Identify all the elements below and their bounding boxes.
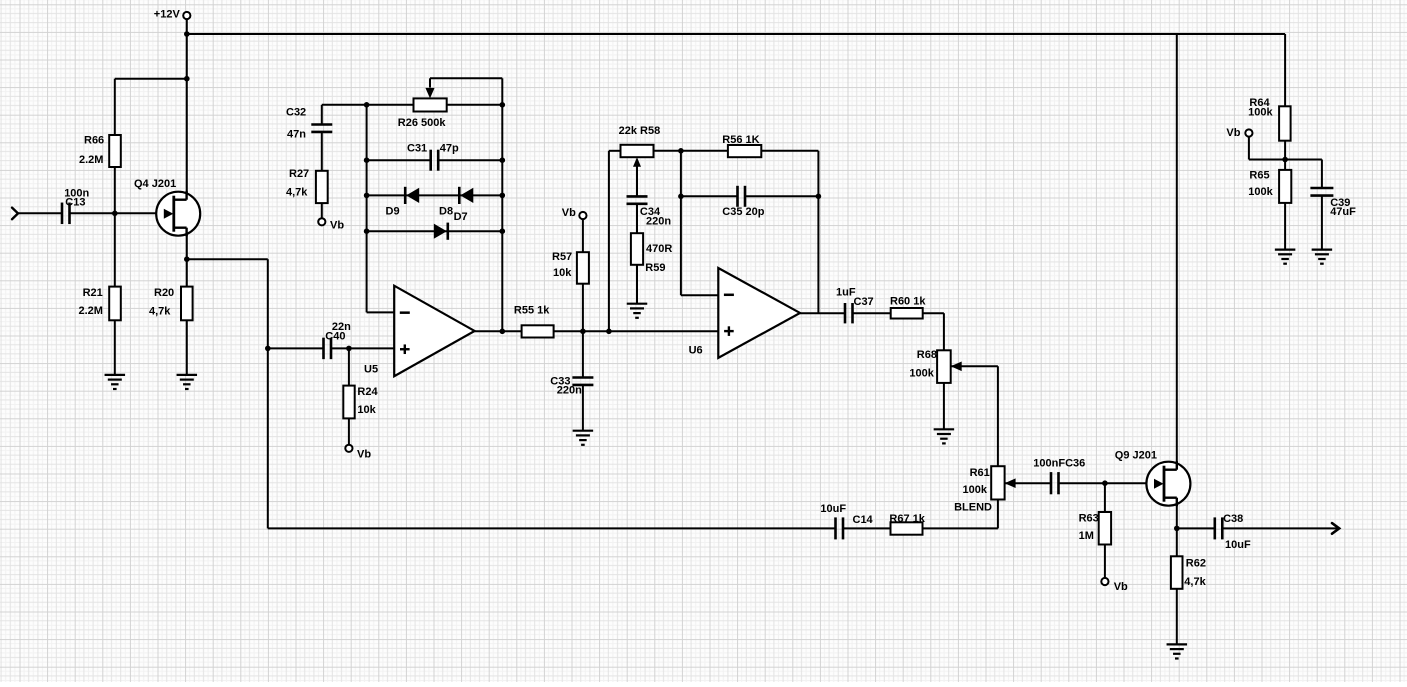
svg-text:100k: 100k: [1248, 186, 1273, 198]
svg-text:R62: R62: [1186, 557, 1206, 569]
svg-text:C31: C31: [407, 143, 427, 155]
svg-text:10uF: 10uF: [820, 503, 846, 515]
svg-text:R67 1k: R67 1k: [889, 513, 925, 525]
svg-text:100k: 100k: [963, 484, 988, 496]
svg-text:D7: D7: [454, 211, 468, 223]
svg-text:R20: R20: [154, 287, 174, 299]
svg-text:R26 500k: R26 500k: [398, 117, 447, 129]
svg-text:R61: R61: [970, 467, 990, 479]
svg-text:U6: U6: [689, 344, 703, 356]
svg-text:10k: 10k: [553, 267, 572, 279]
svg-text:R65: R65: [1249, 169, 1269, 181]
svg-text:Vb: Vb: [357, 449, 371, 461]
svg-text:Vb: Vb: [562, 207, 576, 219]
svg-text:C40: C40: [325, 330, 345, 342]
svg-text:BLEND: BLEND: [954, 501, 992, 513]
svg-text:R57: R57: [552, 251, 572, 263]
svg-text:47uF: 47uF: [1330, 206, 1356, 218]
svg-text:100k: 100k: [909, 367, 934, 379]
svg-text:2.2M: 2.2M: [79, 305, 103, 317]
svg-text:C13: C13: [65, 196, 85, 208]
svg-text:R68: R68: [917, 349, 937, 361]
svg-text:47n: 47n: [287, 129, 306, 141]
svg-text:C35 20p: C35 20p: [722, 206, 764, 218]
svg-text:470R: 470R: [646, 243, 672, 255]
svg-text:4,7k: 4,7k: [1184, 576, 1206, 588]
svg-text:D8: D8: [439, 205, 453, 217]
svg-text:R56 1K: R56 1K: [722, 134, 759, 146]
svg-text:10k: 10k: [357, 404, 376, 416]
svg-text:4,7k: 4,7k: [286, 187, 308, 199]
svg-text:Vb: Vb: [1114, 581, 1128, 593]
svg-text:C37: C37: [854, 296, 874, 308]
svg-text:C38: C38: [1223, 513, 1243, 525]
svg-text:R55 1k: R55 1k: [514, 305, 550, 317]
svg-text:R59: R59: [645, 262, 665, 274]
svg-text:10uF: 10uF: [1225, 539, 1251, 551]
svg-text:22k R58: 22k R58: [619, 125, 661, 137]
svg-text:Q4 J201: Q4 J201: [134, 178, 176, 190]
svg-text:220n: 220n: [646, 215, 671, 227]
svg-text:1M: 1M: [1079, 530, 1094, 542]
svg-text:R24: R24: [357, 386, 378, 398]
svg-text:Vb: Vb: [1226, 127, 1240, 139]
svg-text:2.2M: 2.2M: [79, 154, 103, 166]
svg-text:R63: R63: [1079, 512, 1099, 524]
svg-text:R21: R21: [83, 287, 103, 299]
svg-text:+12V: +12V: [154, 8, 181, 20]
svg-text:C14: C14: [853, 514, 874, 526]
svg-text:R66: R66: [84, 134, 104, 146]
svg-text:D9: D9: [386, 205, 400, 217]
svg-text:R60 1k: R60 1k: [890, 296, 926, 308]
svg-text:100nFC36: 100nFC36: [1033, 458, 1085, 470]
svg-text:R27: R27: [289, 168, 309, 180]
svg-text:220n: 220n: [557, 384, 582, 396]
svg-text:47p: 47p: [440, 143, 459, 155]
svg-text:4,7k: 4,7k: [149, 306, 171, 318]
svg-text:Q9 J201: Q9 J201: [1115, 450, 1157, 462]
svg-text:Vb: Vb: [330, 219, 344, 231]
svg-text:100k: 100k: [1248, 106, 1273, 118]
svg-text:U5: U5: [364, 364, 378, 376]
svg-text:C32: C32: [286, 107, 306, 119]
